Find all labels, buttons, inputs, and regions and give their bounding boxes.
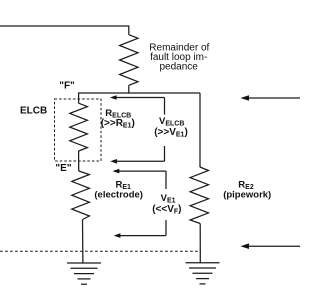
resistor R_E1 xyxy=(72,171,90,220)
resistor R_ELCB xyxy=(70,103,88,151)
svg-text:pedance: pedance xyxy=(160,62,199,73)
svg-text:ELCB: ELCB xyxy=(20,105,47,116)
arrow V_ELCB top xyxy=(110,95,165,114)
wire electrode to earth xyxy=(82,220,84,264)
ground right (earth via pipework) xyxy=(186,263,220,284)
wire node F bus xyxy=(129,85,200,93)
arrow V_E1 bottom xyxy=(114,220,166,238)
arrow V_ELCB bottom xyxy=(110,146,164,164)
svg-text:"F": "F" xyxy=(59,81,75,92)
svg-text:"E": "E" xyxy=(55,163,71,174)
svg-text:(pipework): (pipework) xyxy=(223,189,271,200)
wire F terminal to ELCB xyxy=(79,93,129,103)
arrow V_E1 top xyxy=(113,169,167,189)
wire E terminal xyxy=(78,151,80,171)
wire supply top xyxy=(0,26,129,35)
svg-text:(electrode): (electrode) xyxy=(94,189,143,200)
ELCB dashed enclosure xyxy=(55,99,102,161)
arrow fault current top right xyxy=(241,95,301,101)
label Remainder of fault loop impedance xyxy=(149,43,209,73)
ground left (earth electrode) xyxy=(67,263,101,284)
resistor R_E2 xyxy=(190,167,208,224)
wire pipework branch xyxy=(199,93,201,167)
arrow fault current bottom right xyxy=(241,243,301,249)
wire pipework to earth xyxy=(199,224,201,263)
resistor fault-loop (remainder of fault loop impedance) xyxy=(120,35,138,86)
ground level dashed line xyxy=(0,250,201,252)
